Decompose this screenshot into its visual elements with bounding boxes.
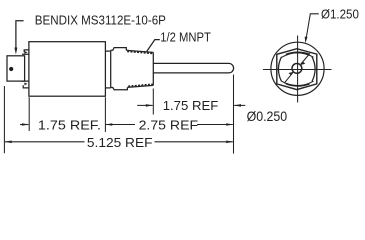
chamfer arc top [281,53,313,58]
vertical centerline [297,36,299,103]
extension line body left (1.75) [28,97,30,131]
leader for O1.250 [306,14,319,40]
dim row A right tail [234,104,245,106]
arrow row B mid (points left at x=105) [105,123,112,126]
rear block dot [9,67,13,71]
thread hatching bottom [128,85,153,87]
extension line far left (5.125) [3,86,5,153]
chamfer arc left [278,57,281,82]
extension line body right (1.75/2.75) [104,97,106,132]
bottom ear notch [24,83,27,86]
extension line probe tip [233,75,235,154]
svg-text:1.75 REF.: 1.75 REF. [38,117,101,132]
arrow row C left (points left) [5,141,12,144]
bottom ear bracket [21,81,29,88]
chamfer arc bottom [281,81,313,86]
hex nut outline (pointy top/bottom) [277,49,317,90]
outer shell circle [271,42,324,95]
SW spoke [284,73,293,84]
dim row B: line 2.75 right segment [197,124,233,126]
probe tube [153,63,233,73]
top ear bracket [22,50,29,54]
chamfer arc right [312,57,315,82]
leader for 1/2 MNPT [147,40,160,52]
neck top line [105,50,110,52]
leader arrowhead on outer circle [305,37,308,44]
END VIEW [263,14,332,103]
arrow row C right (points right) [226,141,233,144]
svg-text:BENDIX MS3112E-10-6P: BENDIX MS3112E-10-6P [35,12,166,27]
tapered thread section 1/2 MNPT [126,50,153,87]
svg-text:5.125 REF: 5.125 REF [87,135,153,150]
horizontal centerline [263,69,332,71]
dim row A: 1.75 REF line left tail [137,104,152,106]
svg-text:2.75 REF: 2.75 REF [139,117,199,132]
dim row B: left tail of 1.75 REF. [20,124,28,126]
arrow row A left (points right) [146,104,153,107]
leader for BENDIX label [16,21,24,49]
NE spoke arrowhead [300,62,305,65]
svg-text:1/2 MNPT: 1/2 MNPT [160,30,211,45]
svg-text:1.75 REF: 1.75 REF [163,98,219,113]
svg-text:Ø1.250: Ø1.250 [321,7,359,22]
thread hatching top [127,51,153,53]
connector rear block [7,56,25,81]
arrow row B far-left (points right) [22,123,29,126]
arrow row B right (points right at x=233.5) [226,123,233,126]
center pin circle [292,64,302,74]
neck bottom line [105,87,110,89]
chamfer arc bottom heavy band [286,84,310,86]
connector main body [29,42,106,96]
svg-text:Ø0.250: Ø0.250 [247,109,288,124]
extension line threads end (1.75 top) [152,89,154,115]
leader arrowhead [14,48,17,55]
hex nut side view [111,48,128,90]
top ear notch [24,51,27,54]
SW spoke arrowhead [289,72,294,75]
dim row C: 5.125 right segment [155,141,233,143]
NE spoke [301,53,310,64]
chamfer arc top heavy band [286,52,310,54]
dim row B: line 2.75 left segment [106,124,135,126]
dim row C: 5.125 left segment [5,141,85,143]
arrow row A right (points left) [234,104,241,107]
